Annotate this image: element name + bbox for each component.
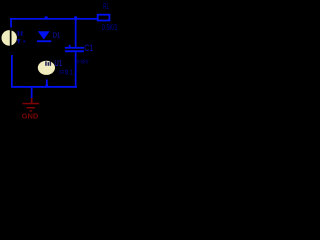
background	[0, 0, 127, 121]
wire: lamp bottom stub	[46, 80, 48, 87]
svg-text:GND: GND	[22, 112, 39, 121]
resistor R1 (box)	[98, 15, 110, 21]
svg-text:0 66V: 0 66V	[77, 60, 89, 66]
cap plus tick	[69, 45, 71, 47]
cap top plate	[65, 47, 84, 49]
lamp U1 (cream ellipse)	[38, 61, 55, 75]
diode D1 (triangle + cathode bar)	[38, 31, 50, 39]
wire: bottom horizontal rail	[11, 86, 77, 88]
svg-text:0.5K/1: 0.5K/1	[102, 23, 118, 32]
AC source T1 (cream circle with dark split)	[2, 30, 17, 46]
label U1 (two tick marks) right of source	[18, 31, 20, 35]
label T= below	[17, 39, 21, 40]
svg-text:C1: C1	[84, 43, 93, 53]
dark marks over lamp (label overlap)	[45, 61, 47, 65]
node: junction dot at capacitor branch	[74, 16, 77, 19]
cap bottom plate	[65, 50, 84, 52]
ground symbol (red)	[31, 98, 33, 104]
wire: top horizontal rail	[10, 18, 97, 20]
wire: left vertical drop from top rail	[10, 18, 12, 28]
wire: ground stub (blue)	[31, 86, 33, 99]
wire: cap bottom stub	[75, 52, 77, 87]
svg-text:R1: R1	[103, 1, 109, 11]
wire: cap top stub	[75, 18, 77, 47]
node: junction dot at diode branch	[45, 16, 48, 19]
svg-text:I=9.1: I=9.1	[59, 68, 73, 77]
wire: lower-left vertical from source to bottom rail	[11, 55, 13, 88]
svg-text:D1: D1	[53, 31, 61, 40]
